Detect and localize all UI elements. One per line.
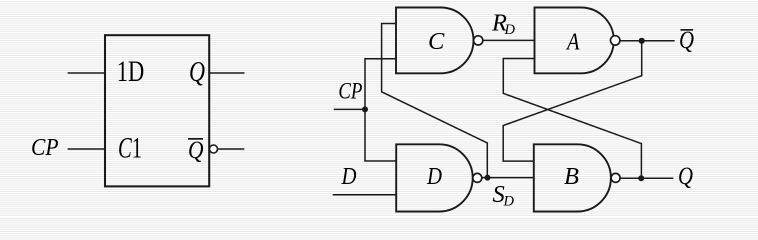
flip-flop box U1 bbox=[105, 35, 209, 186]
svg-text:Q: Q bbox=[678, 163, 693, 190]
wire Q feedback to gate A lower input bbox=[503, 59, 641, 179]
bubble of gate C bbox=[474, 36, 483, 45]
nand gate D body bbox=[396, 144, 473, 211]
svg-text:C: C bbox=[428, 28, 445, 55]
svg-text:A: A bbox=[565, 28, 580, 55]
svg-text:Q: Q bbox=[189, 57, 205, 88]
svg-text:RD: RD bbox=[491, 9, 515, 38]
overbar of box Qbar bbox=[188, 138, 203, 140]
svg-text:SD: SD bbox=[493, 181, 515, 210]
wire SD from gate D to gate B bbox=[482, 177, 534, 179]
svg-text:B: B bbox=[564, 163, 579, 190]
svg-text:1D: 1D bbox=[117, 55, 145, 88]
wire CP input to junction bbox=[334, 108, 365, 110]
wire Q output bbox=[620, 177, 673, 179]
overbar of Qbar output bbox=[681, 29, 694, 31]
wire CP input bbox=[68, 148, 105, 150]
wire SD feedback to gate C top input bbox=[382, 24, 488, 178]
wire RD from gate C to gate A bbox=[483, 39, 535, 41]
svg-text:Q: Q bbox=[679, 27, 694, 54]
svg-text:CP: CP bbox=[31, 134, 59, 161]
bubble of gate B bbox=[611, 173, 620, 182]
inversion bubble on Qbar output bbox=[210, 145, 218, 153]
junction dot Q node bbox=[638, 175, 644, 181]
svg-text:C1: C1 bbox=[118, 132, 142, 165]
wire 1D input bbox=[68, 72, 105, 74]
nand gate B body bbox=[534, 144, 611, 211]
wire Q output bbox=[209, 72, 244, 74]
nand gate A body bbox=[535, 8, 614, 74]
wire D input bbox=[333, 194, 397, 196]
wire Qbar output bbox=[218, 148, 245, 150]
junction dot CP node bbox=[362, 106, 368, 112]
junction dot SD node bbox=[485, 175, 491, 181]
junction dot Qbar node bbox=[639, 38, 645, 44]
wire Qbar feedback to gate B upper input bbox=[503, 41, 642, 161]
svg-text:CP: CP bbox=[338, 78, 362, 104]
nand gate C body bbox=[396, 8, 474, 74]
wire Qbar output bbox=[620, 40, 675, 42]
bubble of gate A bbox=[611, 36, 620, 45]
bubble of gate D bbox=[473, 173, 482, 182]
svg-text:D: D bbox=[426, 163, 442, 190]
wire CP vertical riser bbox=[365, 59, 396, 161]
svg-text:D: D bbox=[341, 164, 357, 190]
